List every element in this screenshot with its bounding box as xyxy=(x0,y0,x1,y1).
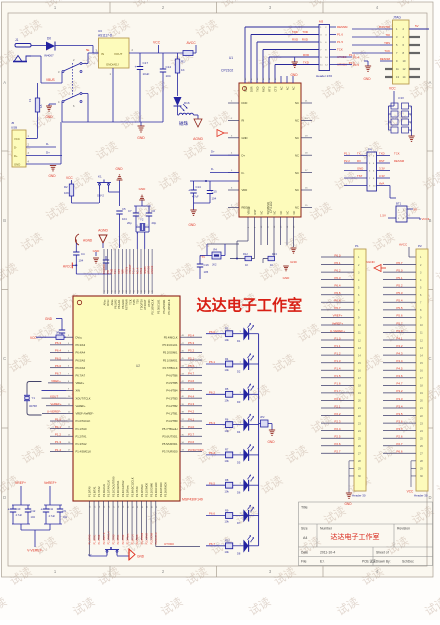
svg-text:P4.3/TB3: P4.3/TB3 xyxy=(166,396,178,400)
svg-text:P6.6: P6.6 xyxy=(396,450,403,454)
net VeREF+ xyxy=(46,405,66,407)
svg-text:P6.0: P6.0 xyxy=(209,330,216,334)
svg-text:XT2IN: XT2IN xyxy=(125,267,128,274)
svg-text:NC: NC xyxy=(291,86,295,90)
svg-text:VCC: VCC xyxy=(30,336,37,340)
svg-text:AVCC: AVCC xyxy=(399,243,408,247)
svg-text:TCK: TCK xyxy=(394,151,400,155)
svg-text:P2.6/CLK: P2.6/CLK xyxy=(131,534,134,545)
svg-text:P1.0/TACLK: P1.0/TACLK xyxy=(76,419,91,423)
jtag left wires nets xyxy=(352,28,380,30)
svg-text:P3.1/SIM0: P3.1/SIM0 xyxy=(146,533,149,545)
node AGND speaker symbol xyxy=(75,234,79,245)
svg-text:UTXD0: UTXD0 xyxy=(194,448,204,452)
svg-text:R5: R5 xyxy=(225,387,229,391)
crystal Y1 32768 xyxy=(42,390,67,392)
svg-text:P6.0/A0: P6.0/A0 xyxy=(121,299,125,309)
svg-text:VeREF+: VeREF+ xyxy=(50,402,62,406)
ground mid caps xyxy=(193,203,195,210)
svg-text:P4.4: P4.4 xyxy=(396,359,403,363)
mcu U2 MSP430F149 xyxy=(73,296,180,501)
connector J1 power jack xyxy=(13,44,31,62)
svg-text:10k: 10k xyxy=(225,368,230,372)
svg-text:AGND: AGND xyxy=(193,137,203,141)
svg-text:104: 104 xyxy=(166,74,171,78)
svg-text:达达电子工作室: 达达电子工作室 xyxy=(331,532,380,541)
svg-text:IN4007: IN4007 xyxy=(44,54,54,58)
svg-text:AVA: AVA xyxy=(379,181,384,185)
svg-text:P3.5/URXD0: P3.5/URXD0 xyxy=(164,482,168,497)
ground below m3 wires xyxy=(294,57,296,62)
svg-text:P3.7: P3.7 xyxy=(396,427,403,431)
svg-text:P4.5: P4.5 xyxy=(396,367,403,371)
svg-text:R10: R10 xyxy=(225,539,230,543)
svg-text:NC: NC xyxy=(295,153,299,157)
svg-text:P5.4/MCLK: P5.4/MCLK xyxy=(164,335,178,339)
svg-text:DTR: DTR xyxy=(243,86,247,91)
svg-text:P1.5: P1.5 xyxy=(334,374,341,378)
svg-text:P5.5/URXD1: P5.5/URXD1 xyxy=(162,442,178,446)
svg-text:P5.1/SMCLK: P5.1/SMCLK xyxy=(167,299,171,314)
svg-text:P6.7: P6.7 xyxy=(396,261,403,265)
svg-text:D-: D- xyxy=(46,142,49,146)
svg-text:GND: GND xyxy=(344,502,352,506)
svg-text:1K: 1K xyxy=(245,263,248,267)
capacitor C17 10uF xyxy=(139,53,141,66)
svg-text:P1.7/TA2: P1.7/TA2 xyxy=(98,534,101,544)
wire utxd0 xyxy=(156,546,200,548)
svg-text:VREF+: VREF+ xyxy=(15,481,26,485)
svg-text:A: A xyxy=(3,80,6,85)
svg-text:D5: D5 xyxy=(237,460,241,464)
svg-text:TCK: TCK xyxy=(128,299,132,304)
svg-text:STE1: STE1 xyxy=(140,267,143,274)
svg-text:P5.2: P5.2 xyxy=(396,284,403,288)
svg-text:TMS: TMS xyxy=(384,41,390,45)
svg-text:0R: 0R xyxy=(56,331,59,335)
red arrow port xyxy=(217,130,224,137)
svg-text:2011-10-4: 2011-10-4 xyxy=(320,551,335,555)
svg-text:5V: 5V xyxy=(414,208,418,212)
svg-text:DVcc: DVcc xyxy=(106,299,110,306)
svg-text:P3.2/SOMI0: P3.2/SOMI0 xyxy=(149,482,153,497)
svg-text:P5.1: P5.1 xyxy=(188,356,195,360)
svg-text:4.7uF: 4.7uF xyxy=(16,513,23,517)
svg-text:VOUT: VOUT xyxy=(114,52,123,56)
svg-text:P6.1: P6.1 xyxy=(209,360,216,364)
svg-text:D16: D16 xyxy=(184,101,190,105)
ground AGND under bead xyxy=(194,119,202,127)
svg-text:P2.0: P2.0 xyxy=(334,397,341,401)
svg-text:1K: 1K xyxy=(270,263,273,267)
net VREF- xyxy=(42,412,66,414)
svg-text:GND: GND xyxy=(139,187,147,191)
svg-text:P1.5/TA0: P1.5/TA0 xyxy=(89,534,92,544)
svg-text:D1: D1 xyxy=(237,339,241,343)
svg-text:TCK: TCK xyxy=(337,48,343,52)
svg-text:R7: R7 xyxy=(225,448,229,452)
svg-text:P1.6/TA1: P1.6/TA1 xyxy=(93,534,96,544)
svg-text:P6.5: P6.5 xyxy=(55,356,62,360)
svg-text:C16: C16 xyxy=(204,263,210,267)
svg-text:P1.5: P1.5 xyxy=(337,40,343,44)
svg-text:10K: 10K xyxy=(64,191,69,195)
svg-text:P3.0/STE0: P3.0/STE0 xyxy=(140,484,144,497)
svg-text:D+: D+ xyxy=(14,154,18,158)
svg-text:P1.7/TA2: P1.7/TA2 xyxy=(97,486,101,497)
svg-text:P2.1/TACLK: P2.1/TACLK xyxy=(108,531,111,545)
svg-text:C11: C11 xyxy=(49,507,54,511)
svg-text:C14: C14 xyxy=(166,65,172,69)
svg-text:P5.0: P5.0 xyxy=(188,364,195,368)
regulator U3 AS1117-D xyxy=(99,38,130,68)
svg-text:P3.4: P3.4 xyxy=(396,404,403,408)
svg-text:P5.2: P5.2 xyxy=(188,349,195,353)
svg-text:VeREF+: VeREF+ xyxy=(44,481,57,485)
svg-text:P6.6: P6.6 xyxy=(55,364,62,368)
svg-text:P2.6/ADC12CLK: P2.6/ADC12CLK xyxy=(130,477,134,497)
led cathode bus xyxy=(258,334,260,546)
svg-text:BT1: BT1 xyxy=(396,202,402,206)
svg-text:E:\: E:\ xyxy=(320,560,324,564)
led row 1 net P6.0 xyxy=(206,333,226,335)
svg-text:VREF+: VREF+ xyxy=(76,381,85,385)
svg-text:P4.4/TB4: P4.4/TB4 xyxy=(166,389,178,393)
svg-text:V-VEREF-: V-VEREF- xyxy=(27,549,43,553)
svg-text:磁珠: 磁珠 xyxy=(179,120,189,127)
svg-text:P4.0: P4.0 xyxy=(188,425,195,429)
usb data wires into cp2102 xyxy=(210,154,239,156)
svg-text:DCD: DCD xyxy=(242,101,248,105)
led row 8 net P6.7 xyxy=(206,545,226,547)
wire jack to diode xyxy=(31,45,46,47)
svg-text:C4: C4 xyxy=(81,252,85,256)
svg-text:VCC: VCC xyxy=(389,87,396,91)
connector J5 USB xyxy=(12,130,26,167)
svg-text:NC: NC xyxy=(295,119,299,123)
capacitor C13b 104 xyxy=(59,505,61,509)
svg-text:M3: M3 xyxy=(319,20,323,24)
svg-text:10k: 10k xyxy=(225,459,230,463)
svg-text:D-: D- xyxy=(242,171,245,175)
svg-text:C15: C15 xyxy=(212,190,218,194)
svg-text:3.3V: 3.3V xyxy=(379,174,385,178)
svg-text:D4: D4 xyxy=(237,430,241,434)
svg-text:10k: 10k xyxy=(225,489,230,493)
svg-text:C: C xyxy=(428,356,431,361)
svg-text:104: 104 xyxy=(79,259,84,263)
svg-text:TCK: TCK xyxy=(114,269,117,274)
svg-text:10k: 10k xyxy=(225,550,230,554)
svg-text:P6.3: P6.3 xyxy=(55,341,62,345)
svg-text:P4.6: P4.6 xyxy=(188,379,195,383)
svg-text:GND: GND xyxy=(290,73,298,77)
svg-text:Y2: Y2 xyxy=(140,218,144,222)
svg-text:RST/NMI: RST/NMI xyxy=(125,299,129,310)
svg-text:VCC3: VCC3 xyxy=(422,217,430,221)
svg-text:P6.2: P6.2 xyxy=(209,391,216,395)
p2 bottom vcc xyxy=(410,461,412,487)
inductor ferrite bead xyxy=(177,106,179,115)
svg-text:3.3V: 3.3V xyxy=(379,166,385,170)
svg-text:P4.1: P4.1 xyxy=(188,417,195,421)
svg-text:104: 104 xyxy=(63,515,68,519)
svg-text:GND: GND xyxy=(45,115,53,119)
svg-text:GND/ADJ: GND/ADJ xyxy=(106,63,119,67)
svg-text:RESNM: RESNM xyxy=(394,159,405,163)
svg-text:P2.2: P2.2 xyxy=(344,159,350,163)
svg-text:J1: J1 xyxy=(15,38,19,42)
svg-text:P1.6: P1.6 xyxy=(334,382,341,386)
svg-text:32768: 32768 xyxy=(29,404,37,408)
svg-text:SW-2: SW-2 xyxy=(97,194,104,198)
svg-text:R4: R4 xyxy=(214,248,218,252)
svg-text:P5.7: P5.7 xyxy=(396,321,403,325)
svg-text:P2.6: P2.6 xyxy=(334,442,341,446)
svg-text:SIMO1: SIMO1 xyxy=(144,266,147,274)
svg-text:P4.1/TB1: P4.1/TB1 xyxy=(166,412,178,416)
svg-text:CTS: CTS xyxy=(273,86,277,91)
svg-text:GND: GND xyxy=(115,167,123,171)
svg-text:P6.4: P6.4 xyxy=(209,451,216,455)
mid caps C14 C15 xyxy=(193,181,195,190)
svg-text:URXD0: URXD0 xyxy=(151,265,154,274)
wire switch rail to usb gnd xyxy=(60,122,62,164)
wire to BT1 xyxy=(389,186,391,199)
svg-text:P6.4: P6.4 xyxy=(334,284,341,288)
svg-text:P3.2/SOMI: P3.2/SOMI xyxy=(150,532,153,544)
svg-text:P6.4/A4: P6.4/A4 xyxy=(76,351,86,355)
ground GND under rail xyxy=(140,122,142,126)
capacitor C7 20p xyxy=(135,206,137,213)
svg-text:P5.6: P5.6 xyxy=(396,314,403,318)
svg-text:C14: C14 xyxy=(196,185,202,189)
svg-text:C: C xyxy=(3,356,6,361)
svg-text:P2.7: P2.7 xyxy=(396,442,403,446)
svg-text:P4.2: P4.2 xyxy=(396,344,403,348)
svg-text:P2.0/ACLK: P2.0/ACLK xyxy=(102,484,106,497)
svg-text:P2.3/CA0/TA1: P2.3/CA0/TA1 xyxy=(116,480,120,497)
svg-text:D+: D+ xyxy=(46,151,50,155)
svg-text:IN: IN xyxy=(101,52,104,56)
svg-text:VCC: VCC xyxy=(14,137,20,141)
svg-text:P3.7/URXD0: P3.7/URXD0 xyxy=(162,450,178,454)
ferrite FB to AVCC xyxy=(183,51,193,56)
title block xyxy=(299,502,433,566)
svg-text:P6.6/A6: P6.6/A6 xyxy=(76,366,86,370)
svg-text:P1.0: P1.0 xyxy=(334,336,341,340)
svg-text:D+: D+ xyxy=(211,150,215,154)
svg-text:U-VEREF+: U-VEREF+ xyxy=(330,329,345,333)
ground jtag xyxy=(365,66,371,71)
svg-text:R9: R9 xyxy=(225,508,229,512)
svg-text:GND: GND xyxy=(93,249,101,253)
svg-text:P3.2: P3.2 xyxy=(396,389,403,393)
wires below mcu xyxy=(88,501,90,556)
svg-text:P1.4: P1.4 xyxy=(55,448,62,452)
svg-text:P2.1: P2.1 xyxy=(334,404,341,408)
gnd rail bottom xyxy=(62,121,163,123)
svg-text:P2.2: P2.2 xyxy=(334,412,341,416)
svg-text:TXD: TXD xyxy=(379,151,385,155)
svg-text:CP2102: CP2102 xyxy=(221,69,233,73)
svg-text:VREF+: VREF+ xyxy=(51,379,61,383)
svg-text:达达电子工作室: 达达电子工作室 xyxy=(197,297,303,315)
ground GND switch area xyxy=(49,103,56,105)
svg-text:A4: A4 xyxy=(303,536,307,540)
capacitor C11 4.7uF xyxy=(45,505,47,509)
svg-text:P5.1/SMCLK: P5.1/SMCLK xyxy=(151,299,155,314)
resistor R1 1K xyxy=(177,53,179,59)
svg-text:P4.7: P4.7 xyxy=(188,372,195,376)
ground gnd mid xyxy=(95,252,97,256)
svg-text:P4.4: P4.4 xyxy=(188,394,195,398)
ground cp2102 right pin xyxy=(293,217,295,247)
svg-text:P1.1: P1.1 xyxy=(344,151,350,155)
svg-text:P3.6: P3.6 xyxy=(396,419,403,423)
svg-text:R8: R8 xyxy=(225,478,229,482)
svg-text:NC: NC xyxy=(259,211,263,215)
svg-text:XT2OUT: XT2OUT xyxy=(129,264,132,274)
wire verefminus xyxy=(20,524,22,530)
svg-text:AVCC: AVCC xyxy=(63,265,72,269)
svg-text:UTXD0: UTXD0 xyxy=(148,265,151,274)
svg-text:XOUT: XOUT xyxy=(50,394,59,398)
svg-text:P1: P1 xyxy=(355,244,359,248)
svg-text:SchDoc: SchDoc xyxy=(402,560,414,564)
crystal circuit Y2 8MHz xyxy=(134,205,151,207)
wire bundle above U2 xyxy=(103,249,105,294)
svg-text:P6.4: P6.4 xyxy=(55,349,62,353)
svg-text:VBUS: VBUS xyxy=(46,78,55,82)
svg-text:NC: NC xyxy=(279,86,283,90)
svg-text:D-: D- xyxy=(14,146,17,150)
svg-text:R13: R13 xyxy=(272,252,277,256)
svg-text:P4.6/TB6: P4.6/TB6 xyxy=(166,374,178,378)
svg-text:P6.5: P6.5 xyxy=(209,481,216,485)
svg-text:RESNM: RESNM xyxy=(337,25,348,29)
svg-text:NC: NC xyxy=(272,211,276,215)
svg-text:P3.4/UTXD0: P3.4/UTXD0 xyxy=(159,482,163,497)
usb wires xyxy=(26,138,38,140)
svg-text:VeREF+: VeREF+ xyxy=(332,321,344,325)
svg-text:P6.7: P6.7 xyxy=(334,306,341,310)
svg-text:D6: D6 xyxy=(237,491,241,495)
svg-text:U2: U2 xyxy=(136,364,140,368)
U3 output wire xyxy=(129,52,183,54)
capacitor C6 20p xyxy=(148,206,150,213)
svg-text:P6.6: P6.6 xyxy=(334,299,341,303)
svg-text:P5.3: P5.3 xyxy=(188,341,195,345)
svg-text:C17: C17 xyxy=(143,61,149,65)
svg-text:P6.6: P6.6 xyxy=(209,512,216,516)
svg-text:P4.7/TBCLK: P4.7/TBCLK xyxy=(163,366,178,370)
svg-text:XOUT/TCLK: XOUT/TCLK xyxy=(76,396,91,400)
svg-text:P1.4: P1.4 xyxy=(349,53,355,57)
svg-text:D+: D+ xyxy=(242,153,246,157)
svg-text:Header 2X6: Header 2X6 xyxy=(316,74,332,78)
wire vbus xyxy=(41,82,62,84)
wire diode to U3 xyxy=(55,45,93,47)
svg-text:P6.1/A1: P6.1/A1 xyxy=(117,299,121,309)
svg-text:P2.5/Rosc: P2.5/Rosc xyxy=(127,533,130,545)
svg-text:P5.7/TBoutH: P5.7/TBoutH xyxy=(162,427,177,431)
ground led bus xyxy=(269,430,275,435)
svg-text:P6.3: P6.3 xyxy=(209,421,216,425)
svg-text:TDI: TDI xyxy=(136,299,140,303)
switch S1 DPDT xyxy=(72,63,74,97)
resistor R13 1K xyxy=(273,217,275,259)
svg-text:TMS: TMS xyxy=(111,268,114,274)
U3 gnd pin wire xyxy=(112,68,114,122)
svg-text:104: 104 xyxy=(212,197,217,201)
svg-text:TDI: TDI xyxy=(385,33,390,37)
svg-text:XT2OUT: XT2OUT xyxy=(143,299,147,310)
svg-text:R1: R1 xyxy=(181,60,185,64)
svg-text:JP2: JP2 xyxy=(260,415,265,419)
svg-text:AS1117-D: AS1117-D xyxy=(98,34,113,38)
svg-text:Date: Date xyxy=(301,551,308,555)
svg-text:P1.4/SMCLK: P1.4/SMCLK xyxy=(76,450,92,454)
svg-text:104: 104 xyxy=(31,515,36,519)
jumper block 2x4 xyxy=(391,103,398,109)
capacitor C4 104 xyxy=(75,243,77,252)
svg-text:P6.7: P6.7 xyxy=(55,372,62,376)
svg-text:C5: C5 xyxy=(122,207,126,211)
svg-text:P1.1: P1.1 xyxy=(334,344,341,348)
svg-text:RST: RST xyxy=(118,269,121,274)
svg-text:VDD: VDD xyxy=(242,188,248,192)
svg-text:P1.2/TA1: P1.2/TA1 xyxy=(76,434,88,438)
svg-text:JTAG: JTAG xyxy=(393,16,401,20)
led row 7 net P6.6 xyxy=(206,515,226,517)
svg-text:GND: GND xyxy=(290,260,298,264)
svg-text:P2.7/TA0: P2.7/TA0 xyxy=(135,486,139,497)
svg-text:RESNM: RESNM xyxy=(380,57,391,61)
wires m3 to p3 labels xyxy=(336,56,352,58)
svg-text:R2: R2 xyxy=(64,185,68,189)
svg-text:D2: D2 xyxy=(237,370,241,374)
svg-text:TDO/TDI: TDO/TDI xyxy=(103,264,106,274)
svg-text:P1.1/TA0: P1.1/TA0 xyxy=(76,427,88,431)
svg-text:P4: P4 xyxy=(368,148,372,152)
left net labels P1.0-P1.4 xyxy=(50,420,66,422)
svg-text:P5.1: P5.1 xyxy=(396,276,403,280)
svg-text:GND: GND xyxy=(137,555,145,559)
svg-text:RTS: RTS xyxy=(267,86,271,91)
svg-text:JK2: JK2 xyxy=(212,263,217,267)
svg-text:K1: K1 xyxy=(98,175,102,179)
svg-text:GND: GND xyxy=(357,166,363,170)
svg-text:105: 105 xyxy=(204,270,209,274)
svg-text:5V: 5V xyxy=(415,24,419,28)
svg-text:Size: Size xyxy=(301,527,308,531)
capacitor C12 104 xyxy=(27,505,29,509)
svg-text:P2.2/CAOUT/TA0: P2.2/CAOUT/TA0 xyxy=(111,476,115,497)
svg-text:1.5V: 1.5V xyxy=(380,214,386,218)
svg-text:File: File xyxy=(301,560,307,564)
ground jumper block xyxy=(408,136,414,141)
svg-text:C12: C12 xyxy=(31,509,36,513)
svg-text:1K: 1K xyxy=(181,68,185,72)
svg-text:RXD: RXD xyxy=(303,53,309,57)
capacitor C5 104 xyxy=(116,210,122,212)
svg-text:TMS: TMS xyxy=(132,299,136,305)
svg-text:P2.7: P2.7 xyxy=(334,450,341,454)
svg-text:TXD: TXD xyxy=(302,30,308,34)
svg-text:RXD: RXD xyxy=(302,38,308,42)
svg-text:P5.3/UCLK1: P5.3/UCLK1 xyxy=(163,343,178,347)
